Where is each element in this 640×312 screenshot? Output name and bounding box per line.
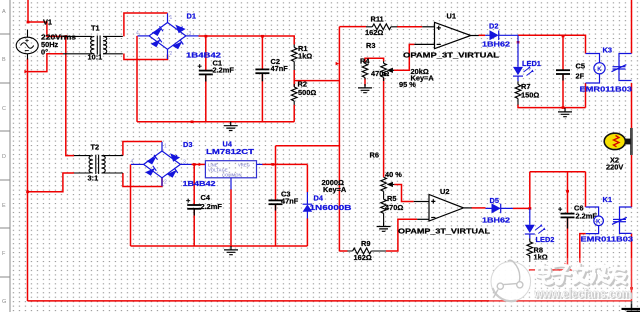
svg-text:R9: R9 [361,239,370,248]
wire R6 wiper to U2 plus [394,185,414,202]
junction V1 plus [27,21,30,24]
potentiometer R6 [381,177,387,191]
svg-text:OPAMP_3T_VIRTUAL: OPAMP_3T_VIRTUAL [403,50,500,59]
arrow marker on C6 vertical [564,263,567,267]
junction U4 output [271,163,274,166]
svg-text:162Ω: 162Ω [365,28,383,37]
right bottom ground [631,301,633,308]
ground below top rail [224,122,238,131]
watermark veil [489,258,640,304]
junction T2 bottom tap [26,190,29,193]
wire R11 to U1 plus input [397,26,422,28]
svg-text:R4: R4 [360,57,370,66]
svg-text:T2: T2 [91,142,100,151]
wire R7 bottom to right rail [518,105,586,108]
wire U4 output node [262,163,307,165]
capacitor C1 [199,71,213,82]
junction C5 bottom [562,106,565,109]
wire plus12 riser [275,146,277,165]
wire K1 coil riser [585,172,587,207]
junction dots bottom [193,163,633,290]
resistor R1 [291,48,297,62]
wire K1 coil bottom return [580,234,586,270]
junction T2 top tap [65,35,68,38]
svg-text:47nF: 47nF [271,64,289,73]
svg-text:C: C [2,106,6,112]
svg-text:4: 4 [136,31,139,37]
capacitor C4 [187,205,201,216]
svg-text:10:1: 10:1 [88,53,103,62]
svg-text:LM7812CT: LM7812CT [206,147,255,156]
junction right ground node [630,287,633,290]
wire U4 common to rail [230,189,232,246]
bridge rectifier D3 [131,142,192,187]
svg-text:1B4B42: 1B4B42 [183,179,216,188]
ground below C5 [558,108,572,117]
wire right edge vertical top [631,0,633,54]
junction C1 top [204,35,207,38]
wire right edge vertical below K1 to ground [631,233,633,301]
svg-text:VREG: VREG [238,163,250,168]
wire R4 bottom to ground [364,78,366,86]
ground below R4 [358,84,372,93]
wire D1 plus rail to R1 [199,36,295,45]
resistor R5 [381,199,387,213]
wire C3 top [275,164,277,200]
diode D2 [485,31,518,41]
svg-text:T1: T1 [91,23,100,32]
wire C1 bottom [205,75,207,122]
svg-text:+: + [198,62,203,71]
svg-text:0°: 0° [41,47,48,56]
svg-text:47nF: 47nF [281,197,299,206]
resistor R9 [353,248,372,254]
wire R9 left riser [339,250,347,252]
svg-text:1: 1 [164,144,167,150]
svg-text:+: + [558,205,563,214]
wire right edge vertical lamp section [631,83,633,207]
diode D5 [486,204,513,214]
svg-text:D: D [2,154,6,160]
potentiometer R3 20k [381,63,387,77]
op-amp U2 [414,195,472,222]
svg-text:D3: D3 [183,140,192,149]
svg-text:LED1: LED1 [522,59,541,68]
junction C6 node [566,190,569,193]
svg-text:R5: R5 [387,194,396,203]
svg-text:A: A [2,9,6,15]
wire T2 top feed from T1 top net [66,36,74,155]
watermark hanzi 发 [573,264,589,285]
wire R4 R3 top link [365,58,384,62]
wire K3 coil bottom to rail [585,83,587,108]
svg-text:220V: 220V [606,163,623,172]
wire common rail [131,245,308,247]
junction C2 top [261,35,264,38]
wire T2 secondary bottom to bridge D3 bottom [123,173,162,187]
svg-text:K3: K3 [603,45,612,54]
svg-text:www.elecfans.com: www.elecfans.com [533,286,631,301]
wire D4 bottom to rail [306,218,308,246]
arrow marker on reference vertical [336,62,339,66]
svg-text:G: G [2,299,6,305]
svg-text:2.2mF: 2.2mF [213,66,235,75]
wire C2 bottom [261,73,263,122]
svg-text:1BH62: 1BH62 [482,215,510,224]
V1 AC source [16,30,38,60]
wire D5 riser up [529,172,531,209]
wire D4 top riser [306,164,308,192]
svg-text:K: K [596,219,601,226]
relay K3 coil [586,54,606,84]
svg-text:+: + [186,196,191,205]
wire D5 out to riser [513,207,530,209]
wire R3 wiper to U1 minus input [393,44,414,70]
svg-text:95 %: 95 % [399,80,416,89]
wire U2 output to D5 [472,207,486,209]
svg-text:OPAMP_3T_VIRTUAL: OPAMP_3T_VIRTUAL [398,226,491,235]
svg-text:EMR011B03: EMR011B03 [581,235,634,244]
wire C6 bottom [567,217,569,270]
arrow marker on V1 minus [24,70,27,74]
svg-text:470Ω: 470Ω [385,203,403,212]
wire V1 plus up to top edge [27,0,29,22]
svg-text:R6: R6 [370,151,379,160]
watermark logo nodes [494,260,523,297]
arrow marker at U4 input [199,163,202,167]
svg-text:3: 3 [189,31,192,37]
junction LED1 branch [517,41,520,44]
svg-text:COMMON: COMMON [222,172,242,177]
svg-text:150Ω: 150Ω [521,90,539,99]
capacitor C3 [269,200,283,210]
svg-text:162Ω: 162Ω [354,253,372,262]
svg-text:C4: C4 [201,193,211,202]
junction C5 top [562,35,565,38]
svg-text:EMR011B03: EMR011B03 [580,84,633,93]
svg-text:2.2mF: 2.2mF [201,202,223,211]
wire plus12 rail [276,145,341,147]
svg-text:Key=A: Key=A [323,185,347,194]
wire C5 top [562,36,564,70]
wire C5 bottom [562,74,564,108]
wire D1 minus vertical to top ground rail [136,36,138,122]
junction dots top [24,21,564,193]
wire R2 bottom [293,105,295,122]
wire V1 plus to T1 jog [28,22,64,36]
ground below R5 [377,223,391,232]
wire top ground rail [137,121,294,123]
svg-text:R11: R11 [371,14,384,23]
junction D5 node [528,207,531,210]
svg-text:LED2: LED2 [536,235,555,244]
T1 transformer [63,36,123,55]
wire U1 output to D2 [479,34,486,36]
svg-text:40 %: 40 % [385,170,402,179]
resistor R11 [372,24,391,30]
resistor R2 [291,87,297,101]
LED1 [513,35,533,81]
svg-text:3:1: 3:1 [88,173,99,182]
wire D3 minus vertical to common rail [130,164,132,246]
capacitor C5 [556,70,570,80]
wire D2 out rail to K3 [518,35,586,53]
svg-text:V1: V1 [43,18,52,27]
watermark hanzi 电 [537,264,554,285]
wire C4 top [193,164,195,204]
LED2 [525,208,545,238]
svg-text:3: 3 [183,160,186,166]
wire K1 feed rail [530,171,586,173]
T2 transformer [74,155,123,174]
wire reference vertical [338,27,340,252]
wire T1 secondary top to bridge D1 top [124,13,168,36]
relay K1 contact [612,207,632,233]
wire V1 minus down to bottom rail [27,59,29,302]
svg-text:C5: C5 [576,61,585,70]
wire R3 bottom long vertical to R6 [383,78,385,177]
resistor R4 [362,64,368,78]
watermark logo circle [491,262,531,302]
svg-text:U1: U1 [447,12,456,21]
resistor R8 [527,242,533,256]
wire C6 branch [567,172,569,214]
svg-text:2F: 2F [576,71,585,80]
svg-text:D2: D2 [489,21,498,30]
svg-text:500Ω: 500Ω [298,88,316,97]
svg-text:U2: U2 [440,187,449,196]
svg-text:D5: D5 [490,196,499,205]
lamp X2 [630,128,633,155]
svg-text:K: K [597,67,602,73]
wire R9 right to U2 minus [386,219,417,251]
svg-text:K1: K1 [603,195,612,204]
junction on top ground rail [191,121,194,124]
relay K1 coil [586,207,604,234]
wire divider tap to reference vertical [294,80,339,82]
relay K3 contact [612,54,632,81]
svg-text:1BH62: 1BH62 [482,39,510,48]
svg-text:1N6000B: 1N6000B [310,203,352,212]
wire C2 top [261,36,263,69]
svg-text:B: B [2,57,6,63]
svg-text:4: 4 [131,159,134,165]
watermark hanzi 友 [609,265,627,285]
svg-text:2: 2 [164,180,167,186]
watermark hanzi 子 [553,265,572,285]
svg-text:D1: D1 [187,12,196,21]
svg-text:1: 1 [170,15,173,21]
bridge rectifier D1 [138,13,199,59]
capacitor C6 [561,214,575,229]
svg-text:E: E [2,203,6,209]
watermark hanzi 烧 [591,264,610,284]
resistor R7 [515,85,521,99]
wire R8 bottom rail [529,269,580,271]
wire reference to R11 [339,26,366,28]
junction C4 top [193,163,196,166]
wire C4 bottom [193,209,195,247]
voltage regulator U4 [205,161,256,178]
wire V1 minus to T1 bottom jog [28,54,64,72]
wire C1 top [205,36,207,70]
op-amp U1 [414,22,478,48]
svg-text:R3: R3 [366,41,375,50]
wire C3 bottom [275,204,277,246]
svg-text:1kΩ: 1kΩ [298,52,312,61]
wire T2 bottom to V1 minus [28,173,75,192]
svg-text:D4: D4 [314,193,324,202]
wire D3 plus to U4 input [192,163,206,165]
svg-text:2: 2 [170,51,173,57]
ground below U4 [224,246,238,255]
wire T1 secondary bottom to bridge D1 bottom [124,54,168,60]
wire bottom rail [28,300,632,302]
capacitor C2 [255,69,269,81]
wire R1 R2 link [293,70,295,87]
diode D4 [303,192,313,219]
wire T2 secondary top to bridge D3 top [123,142,162,156]
